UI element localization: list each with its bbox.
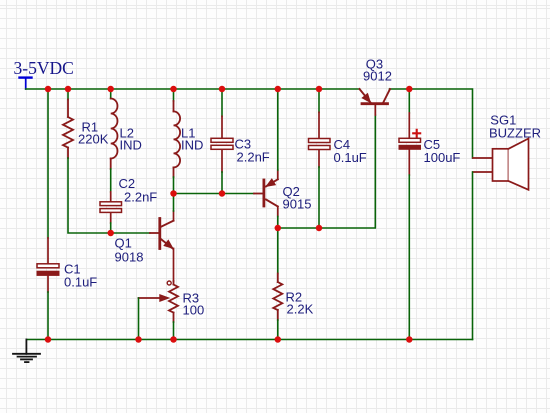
transistor Q3 9012	[360, 57, 392, 116]
ground symbol	[13, 340, 40, 363]
svg-text:BUZZER: BUZZER	[489, 125, 541, 140]
wire C4 bottom	[318, 167, 320, 228]
wire R1 branch top	[67, 89, 69, 100]
wire C2 bottom	[110, 223, 112, 233]
wire Q1 emitter down	[173, 248, 175, 281]
wire R3 bottom	[173, 322, 175, 340]
wire C3 branch top	[221, 89, 223, 116]
inductor L2	[111, 99, 118, 170]
wire Q2 collector down	[277, 207, 279, 217]
wire C1 branch vertical	[47, 89, 49, 238]
power bar symbol	[20, 78, 32, 89]
wire collector node to Q3 base	[278, 115, 376, 228]
wire Q2 emitter up to rail	[277, 170, 279, 179]
potentiometer R3	[139, 281, 205, 322]
capacitor C1	[37, 262, 97, 290]
svg-text:Q1: Q1	[115, 236, 132, 251]
inductor L1	[174, 101, 181, 177]
svg-text:100: 100	[183, 303, 205, 318]
capacitor C5	[399, 137, 460, 165]
capacitor C5 polarity plus	[413, 130, 420, 137]
transistor Q1 9018	[115, 219, 174, 265]
svg-text:100uF: 100uF	[424, 150, 461, 165]
capacitor C3	[211, 137, 270, 165]
wire Q1 collector up	[173, 211, 175, 221]
svg-text:3-5VDC: 3-5VDC	[14, 58, 74, 78]
svg-text:0.1uF: 0.1uF	[334, 150, 367, 165]
wire C5 branch top	[408, 89, 410, 113]
svg-text:2.2nF: 2.2nF	[237, 150, 270, 165]
svg-text:220K: 220K	[78, 132, 109, 147]
wire R3 wiper to ground	[138, 298, 140, 340]
wire second rail (tank node)	[174, 193, 255, 195]
wire C4 branch top	[318, 89, 320, 112]
wire R1 bottom to Q1 base	[68, 158, 150, 233]
svg-text:9012: 9012	[363, 69, 392, 84]
wire L1 bottom	[173, 177, 175, 194]
wire ground rail	[26, 339, 472, 341]
wire top rail right segment to buzzer branch	[390, 89, 473, 158]
svg-text:2.2K: 2.2K	[287, 302, 314, 317]
svg-text:0.1uF: 0.1uF	[64, 275, 97, 290]
wire C3 bottom	[221, 172, 223, 194]
wire buzzer bottom to ground rail	[472, 172, 474, 340]
svg-text:9018: 9018	[115, 250, 144, 265]
svg-text:2.2nF: 2.2nF	[124, 190, 157, 205]
wire C5 bottom	[408, 175, 410, 340]
wire L2 branch top	[110, 89, 112, 99]
resistor R1	[63, 100, 73, 159]
capacitor C2	[100, 176, 157, 212]
wire L1 branch top	[173, 89, 175, 101]
resistor R2	[273, 228, 313, 340]
capacitor C4	[309, 137, 367, 165]
wire L2 to C2	[110, 169, 112, 192]
buzzer SG1	[473, 113, 541, 190]
wire top rail left segment	[26, 88, 360, 90]
transistor Q2 9015	[254, 179, 311, 212]
svg-text:9015: 9015	[283, 197, 312, 212]
svg-text:IND: IND	[120, 138, 142, 153]
svg-text:IND: IND	[181, 138, 203, 153]
